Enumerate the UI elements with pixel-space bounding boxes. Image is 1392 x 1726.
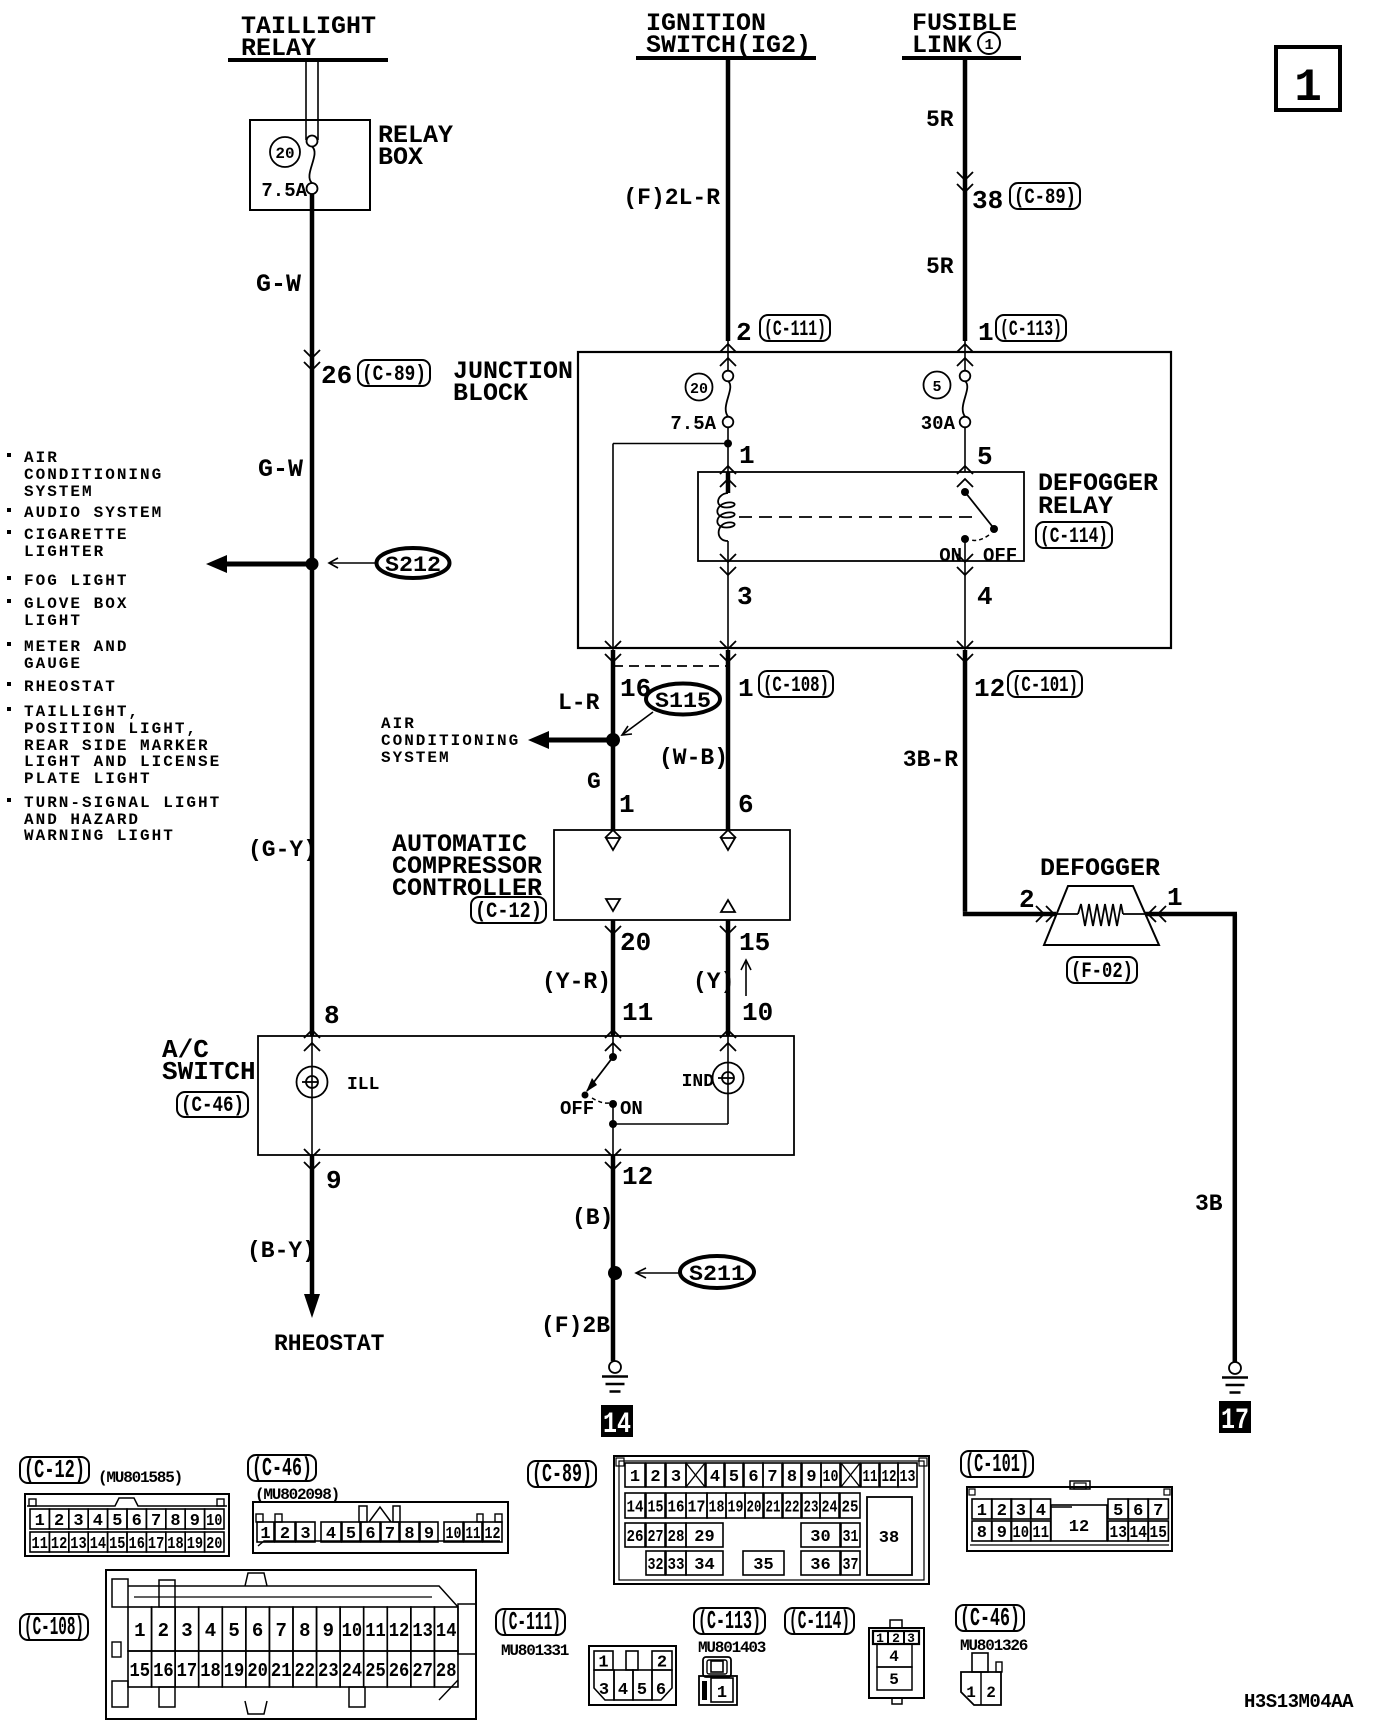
svg-text:13: 13 xyxy=(1110,1524,1127,1543)
connector C-46 pin layout xyxy=(253,1502,508,1553)
svg-text:(C-12): (C-12) xyxy=(475,899,542,924)
svg-text:4: 4 xyxy=(618,1681,628,1700)
svg-text:5: 5 xyxy=(112,1512,122,1531)
svg-text:(C-89): (C-89) xyxy=(362,362,426,387)
svg-text:30: 30 xyxy=(810,1528,830,1547)
bus bar ignition switch xyxy=(636,56,816,60)
connector capsule C-46 (switch) xyxy=(177,1092,248,1117)
svg-text:15: 15 xyxy=(739,928,770,958)
svg-text:3: 3 xyxy=(300,1525,310,1544)
ground symbol 14 xyxy=(609,1361,621,1373)
svg-text:27: 27 xyxy=(412,1660,433,1682)
svg-text:SYSTEM: SYSTEM xyxy=(381,749,451,767)
svg-text:11: 11 xyxy=(32,1535,48,1554)
bus bar taillight relay xyxy=(228,58,388,62)
svg-text:12: 12 xyxy=(882,1468,897,1487)
svg-text:(C-114): (C-114) xyxy=(789,1606,850,1636)
svg-text:8: 8 xyxy=(404,1525,414,1544)
svg-text:11: 11 xyxy=(863,1468,878,1487)
defogger relay exit arrows xyxy=(720,554,973,575)
svg-text:(C-101): (C-101) xyxy=(965,1449,1029,1479)
splice S211 node xyxy=(608,1266,622,1280)
svg-text:(F)2L-R: (F)2L-R xyxy=(623,185,720,211)
svg-text:(C-114): (C-114) xyxy=(1040,524,1108,549)
svg-text:METER AND: METER AND xyxy=(24,638,128,656)
svg-text:28: 28 xyxy=(668,1528,685,1547)
relay coil-contact dashed link xyxy=(739,516,978,518)
splice label S211 xyxy=(680,1256,754,1288)
svg-text:MU801403: MU801403 xyxy=(698,1639,766,1657)
connector capsule C-114 (detail) xyxy=(785,1608,854,1634)
power source label TAILLIGHT RELAY xyxy=(241,12,376,63)
svg-text:19: 19 xyxy=(187,1535,203,1554)
svg-text:3: 3 xyxy=(671,1468,681,1487)
svg-text:13: 13 xyxy=(900,1468,916,1487)
svg-text:(C-89): (C-89) xyxy=(1014,185,1076,210)
svg-text:(F)2B: (F)2B xyxy=(541,1313,610,1339)
svg-text:34: 34 xyxy=(694,1556,714,1575)
svg-text:5: 5 xyxy=(932,379,941,396)
label RELAY BOX xyxy=(378,121,453,172)
svg-text:RHEOSTAT: RHEOSTAT xyxy=(24,678,117,696)
svg-text:FOG LIGHT: FOG LIGHT xyxy=(24,572,128,590)
relay coil xyxy=(717,472,734,561)
svg-text:IND: IND xyxy=(682,1072,715,1092)
svg-text:15: 15 xyxy=(648,1499,664,1518)
svg-text:16: 16 xyxy=(153,1660,174,1682)
svg-text:3B-R: 3B-R xyxy=(903,747,958,773)
svg-text:20: 20 xyxy=(275,145,294,163)
arrow to air conditioning system from S115 xyxy=(528,731,613,749)
svg-text:ILL: ILL xyxy=(347,1075,379,1095)
svg-text:(W-B): (W-B) xyxy=(659,745,728,771)
svg-text:5: 5 xyxy=(977,442,993,472)
svg-text:32: 32 xyxy=(648,1556,664,1575)
connector C-12 pin layout xyxy=(25,1494,229,1556)
connector capsule C-89 (detail) xyxy=(528,1461,596,1487)
relay box xyxy=(250,120,370,210)
wire pin3: relay to junction block edge xyxy=(727,561,729,648)
svg-text:CONDITIONING: CONDITIONING xyxy=(24,466,163,484)
svg-text:CONDITIONING: CONDITIONING xyxy=(381,732,520,750)
svg-text:6: 6 xyxy=(1133,1502,1143,1521)
svg-text:(C-111): (C-111) xyxy=(500,1607,561,1637)
svg-text:10: 10 xyxy=(823,1468,839,1487)
svg-text:20: 20 xyxy=(690,381,708,398)
label ON / OFF (relay) xyxy=(939,545,1017,567)
svg-text:7.5A: 7.5A xyxy=(261,180,307,202)
svg-text:3: 3 xyxy=(1016,1502,1026,1521)
svg-text:22: 22 xyxy=(785,1499,800,1518)
svg-text:(B-Y): (B-Y) xyxy=(247,1238,316,1264)
wire L-R / G : pin16 to compressor controller pin 1 xyxy=(611,650,616,830)
svg-text:2: 2 xyxy=(986,1684,996,1702)
svg-text:4: 4 xyxy=(205,1620,216,1642)
junction block outline xyxy=(578,352,1171,648)
splice S115 node xyxy=(606,733,620,747)
svg-text:POSITION LIGHT,: POSITION LIGHT, xyxy=(24,720,198,738)
svg-text:LIGHT AND LICENSE: LIGHT AND LICENSE xyxy=(24,753,221,771)
arrow to other systems from S212 xyxy=(206,555,312,573)
svg-text:BLOCK: BLOCK xyxy=(453,379,528,408)
ground symbol 17 xyxy=(1229,1362,1241,1374)
svg-text:12: 12 xyxy=(622,1162,653,1192)
svg-text:WARNING LIGHT: WARNING LIGHT xyxy=(24,827,175,845)
svg-text:11: 11 xyxy=(1033,1524,1050,1543)
svg-text:SYSTEM: SYSTEM xyxy=(24,483,94,501)
connector capsule C-113 xyxy=(996,315,1066,341)
svg-text:RELAY: RELAY xyxy=(1038,492,1113,521)
svg-text:8: 8 xyxy=(324,1001,340,1031)
svg-text:18: 18 xyxy=(167,1535,183,1554)
svg-text:17: 17 xyxy=(148,1535,164,1554)
svg-text:G: G xyxy=(587,769,601,795)
connector capsule C-114 xyxy=(1036,522,1112,548)
svg-text:(MU801585): (MU801585) xyxy=(98,1469,182,1487)
svg-text:(C-46): (C-46) xyxy=(960,1603,1020,1633)
svg-text:10: 10 xyxy=(742,998,773,1028)
svg-text:15: 15 xyxy=(1150,1524,1167,1543)
connector capsule C-89 (wire 26) xyxy=(358,360,430,386)
automatic compressor controller box xyxy=(554,830,790,920)
svg-text:3: 3 xyxy=(181,1620,192,1642)
svg-text:(C-108): (C-108) xyxy=(24,1612,84,1642)
wire pin4: relay to junction block edge xyxy=(964,561,966,648)
ground id box 14 xyxy=(601,1405,633,1442)
svg-text:GLOVE BOX: GLOVE BOX xyxy=(24,595,128,613)
svg-text:4: 4 xyxy=(710,1468,720,1487)
svg-text:21: 21 xyxy=(271,1660,292,1682)
A/C switch entry arrows xyxy=(304,1030,736,1051)
svg-text:10: 10 xyxy=(206,1512,222,1531)
svg-text:BOX: BOX xyxy=(378,143,423,172)
splice label S115 xyxy=(646,684,720,715)
lamp ILL xyxy=(297,1036,328,1155)
svg-text:6: 6 xyxy=(738,790,754,820)
svg-text:6: 6 xyxy=(252,1620,263,1642)
svg-text:CIGARETTE: CIGARETTE xyxy=(24,526,128,544)
svg-text:1: 1 xyxy=(739,441,755,471)
defogger pin 2 arrows xyxy=(1036,906,1054,922)
svg-text:LIGHTER: LIGHTER xyxy=(24,543,105,561)
svg-text:1: 1 xyxy=(134,1620,145,1642)
connector C-108 pin layout xyxy=(106,1570,476,1719)
svg-text:G-W: G-W xyxy=(258,455,303,484)
svg-text:1: 1 xyxy=(619,790,635,820)
wire (B-Y): switch pin 9 to rheostat xyxy=(304,1155,320,1318)
svg-text:24: 24 xyxy=(822,1499,838,1518)
lamp IND xyxy=(613,1036,744,1124)
svg-text:14: 14 xyxy=(436,1620,457,1642)
svg-text:26: 26 xyxy=(627,1528,644,1547)
power source label IGNITION SWITCH(IG2) xyxy=(646,9,811,60)
label A/C SWITCH xyxy=(162,1035,256,1087)
svg-text:20: 20 xyxy=(206,1535,222,1554)
wire internal: junction to pin 16 branch xyxy=(613,439,728,648)
svg-text:14: 14 xyxy=(1130,1524,1147,1543)
svg-text:22: 22 xyxy=(294,1660,315,1682)
svg-text:12: 12 xyxy=(974,674,1005,704)
svg-text:25: 25 xyxy=(842,1499,859,1518)
svg-text:2: 2 xyxy=(1019,885,1035,915)
svg-text:16: 16 xyxy=(129,1535,145,1554)
svg-text:12: 12 xyxy=(485,1525,501,1544)
svg-text:8: 8 xyxy=(787,1468,797,1487)
splice S212 node xyxy=(306,558,319,571)
svg-text:TAILLIGHT,: TAILLIGHT, xyxy=(24,703,140,721)
svg-text:1: 1 xyxy=(978,318,994,348)
svg-text:S212: S212 xyxy=(385,553,441,578)
connector capsule C-101 xyxy=(1008,671,1082,697)
svg-text:(C-111): (C-111) xyxy=(764,317,826,342)
svg-text:2: 2 xyxy=(158,1620,169,1642)
svg-text:(C-46): (C-46) xyxy=(252,1453,312,1483)
svg-text:3: 3 xyxy=(599,1681,609,1700)
svg-text:2: 2 xyxy=(997,1502,1007,1521)
A/C switch exit arrows xyxy=(304,1149,621,1170)
svg-text:6: 6 xyxy=(656,1681,666,1700)
wire 5R: fusible link to junction block pin 1 xyxy=(963,60,968,371)
svg-text:27: 27 xyxy=(648,1528,664,1547)
svg-text:23: 23 xyxy=(318,1660,339,1682)
svg-text:5: 5 xyxy=(637,1681,647,1700)
wire (F)2L-R: ignition switch to junction block pin 2 xyxy=(726,60,731,371)
svg-text:19: 19 xyxy=(224,1660,245,1682)
svg-text:2: 2 xyxy=(54,1512,64,1531)
node junction pin 1 internal xyxy=(724,440,732,448)
page number box 1 xyxy=(1276,47,1340,114)
svg-text:(C-89): (C-89) xyxy=(532,1459,592,1489)
svg-text:1: 1 xyxy=(738,674,754,704)
wire (Y): controller pin 15 to A/C switch pin 10 xyxy=(726,920,731,1036)
svg-text:SWITCH(IG2): SWITCH(IG2) xyxy=(646,31,811,60)
svg-text:35: 35 xyxy=(753,1556,773,1575)
S212 pointer arrow xyxy=(329,558,375,568)
svg-text:1: 1 xyxy=(260,1525,270,1544)
svg-text:26: 26 xyxy=(321,361,352,391)
svg-text:5: 5 xyxy=(729,1468,739,1487)
wire double: taillight relay to relay box xyxy=(306,62,318,140)
svg-text:9: 9 xyxy=(806,1468,816,1487)
svg-text:(G-Y): (G-Y) xyxy=(248,837,317,863)
svg-text:10: 10 xyxy=(342,1620,363,1642)
connector C-89 pin layout xyxy=(614,1456,929,1584)
svg-text:AIR: AIR xyxy=(381,715,416,733)
svg-text:1: 1 xyxy=(1294,62,1322,114)
svg-text:1: 1 xyxy=(1167,883,1183,913)
svg-text:MU801331: MU801331 xyxy=(501,1642,569,1660)
svg-text:1: 1 xyxy=(35,1512,45,1531)
controller exit arrows xyxy=(605,926,736,934)
wire 3B-R: junction block pin 12 to defogger pin 2 xyxy=(963,650,1056,914)
svg-text:(F-02): (F-02) xyxy=(1071,959,1133,984)
svg-text:5R: 5R xyxy=(926,107,954,133)
svg-text:(B): (B) xyxy=(572,1205,613,1231)
splice label S212 xyxy=(377,548,450,578)
svg-text:AIR: AIR xyxy=(24,449,59,467)
connector capsule C-111 (detail) xyxy=(496,1609,565,1635)
svg-text:38: 38 xyxy=(879,1529,899,1548)
svg-text:S211: S211 xyxy=(689,1262,745,1287)
svg-text:29: 29 xyxy=(694,1528,714,1547)
svg-text:10: 10 xyxy=(446,1525,462,1544)
svg-text:5R: 5R xyxy=(926,254,954,280)
junction block entry arrows pin2/pin1 xyxy=(720,344,973,366)
svg-text:17: 17 xyxy=(688,1499,706,1518)
system list fed by taillight relay circuit xyxy=(7,449,221,845)
svg-text:11: 11 xyxy=(622,998,653,1028)
svg-text:11: 11 xyxy=(365,1620,386,1642)
svg-text:(C-108): (C-108) xyxy=(763,673,829,698)
svg-text:6: 6 xyxy=(365,1525,375,1544)
svg-text:7: 7 xyxy=(385,1525,395,1544)
svg-text:15: 15 xyxy=(130,1660,151,1682)
label DEFOGGER RELAY xyxy=(1038,469,1158,521)
svg-text:3B: 3B xyxy=(1195,1191,1223,1217)
svg-text:10: 10 xyxy=(1013,1524,1030,1543)
svg-text:5: 5 xyxy=(346,1525,356,1544)
connector capsule C-46 small (detail) xyxy=(956,1605,1024,1631)
controller pin triangles xyxy=(606,838,735,912)
connector crossing arrows C-89 on 5R wire xyxy=(957,172,973,192)
svg-text:28: 28 xyxy=(436,1660,457,1682)
svg-text:26: 26 xyxy=(389,1660,410,1682)
svg-text:33: 33 xyxy=(668,1556,685,1575)
svg-text:18: 18 xyxy=(200,1660,221,1682)
svg-text:(C-46): (C-46) xyxy=(181,1093,244,1118)
S211 pointer arrow xyxy=(636,1268,680,1278)
connector capsule C-108 (detail) xyxy=(20,1614,88,1640)
svg-text:9: 9 xyxy=(190,1512,200,1531)
controller entry arrows xyxy=(605,830,736,838)
bus bar fusible link xyxy=(902,56,1021,60)
svg-text:(C-113): (C-113) xyxy=(698,1606,761,1636)
svg-text:23: 23 xyxy=(804,1499,819,1518)
svg-text:14: 14 xyxy=(603,1408,631,1442)
svg-text:6: 6 xyxy=(132,1512,142,1531)
connector capsule C-12 xyxy=(471,897,546,923)
svg-text:7: 7 xyxy=(151,1512,161,1531)
svg-text:LIGHT: LIGHT xyxy=(24,612,82,630)
svg-text:7: 7 xyxy=(276,1620,287,1642)
svg-text:5: 5 xyxy=(228,1620,239,1642)
svg-text:3: 3 xyxy=(73,1512,83,1531)
S115 pointer arrow xyxy=(622,712,653,735)
svg-text:18: 18 xyxy=(709,1499,725,1518)
connector capsule C-46 (detail) xyxy=(248,1455,316,1481)
connector C-108 dashed boundary xyxy=(613,665,728,667)
label AUTOMATIC COMPRESSOR CONTROLLER xyxy=(392,830,542,903)
connector crossing arrows C-89 on G-W wire xyxy=(304,350,320,370)
svg-text:5: 5 xyxy=(1113,1502,1123,1521)
svg-text:7.5A: 7.5A xyxy=(670,413,716,435)
svg-text:15: 15 xyxy=(109,1535,125,1554)
svg-text:5: 5 xyxy=(889,1671,899,1689)
svg-text:LINK: LINK xyxy=(912,31,972,60)
svg-text:9: 9 xyxy=(323,1620,334,1642)
svg-text:4: 4 xyxy=(326,1525,336,1544)
signal direction arrow on (Y) wire xyxy=(741,960,751,996)
svg-text:1: 1 xyxy=(966,1684,976,1702)
svg-text:OFF: OFF xyxy=(560,1098,594,1120)
svg-text:(C-12): (C-12) xyxy=(24,1455,85,1485)
svg-text:2: 2 xyxy=(736,318,752,348)
connector capsule C-111 xyxy=(760,315,830,341)
svg-text:7: 7 xyxy=(1153,1502,1163,1521)
svg-text:L-R: L-R xyxy=(558,690,600,716)
A/C switch box xyxy=(258,1036,794,1155)
svg-text:G-W: G-W xyxy=(256,270,301,299)
wire 3B: defogger pin 1 to ground 17 xyxy=(1145,914,1237,1362)
svg-text:9: 9 xyxy=(326,1166,342,1196)
svg-text:25: 25 xyxy=(365,1660,386,1682)
svg-text:4: 4 xyxy=(93,1512,103,1531)
svg-text:MU801326: MU801326 xyxy=(960,1637,1028,1655)
junction block exit arrows xyxy=(605,641,973,662)
svg-text:20: 20 xyxy=(247,1660,268,1682)
svg-text:30A: 30A xyxy=(921,413,956,435)
svg-text:GAUGE: GAUGE xyxy=(24,655,82,673)
svg-text:4: 4 xyxy=(889,1648,899,1666)
svg-text:13: 13 xyxy=(412,1620,433,1642)
connector capsule F-02 xyxy=(1067,957,1137,983)
connector C-114 pin layout xyxy=(869,1620,924,1704)
power source label FUSIBLE LINK 1 xyxy=(912,9,1017,60)
connector C-46 small pin layout xyxy=(961,1653,1002,1705)
svg-text:H3S13M04AA: H3S13M04AA xyxy=(1244,1691,1354,1713)
svg-text:37: 37 xyxy=(843,1556,859,1575)
svg-text:12: 12 xyxy=(51,1535,67,1554)
svg-text:1: 1 xyxy=(984,37,993,54)
svg-text:20: 20 xyxy=(747,1499,762,1518)
svg-text:AUDIO SYSTEM: AUDIO SYSTEM xyxy=(24,504,163,522)
svg-text:7: 7 xyxy=(767,1468,777,1487)
svg-text:13: 13 xyxy=(70,1535,86,1554)
label AIR CONDITIONING SYSTEM (S115) xyxy=(381,715,520,767)
svg-text:2: 2 xyxy=(650,1468,660,1487)
connector capsule C-12 (detail) xyxy=(20,1457,89,1483)
svg-text:16: 16 xyxy=(668,1499,685,1518)
connector C-113 pin layout xyxy=(699,1657,737,1705)
connector capsule C-113 (detail) xyxy=(694,1608,765,1634)
wire (W-B): C-108 pin 1 to controller pin 6 xyxy=(726,650,731,830)
svg-text:(C-101): (C-101) xyxy=(1012,673,1078,698)
connector capsule C-101 (detail) xyxy=(961,1451,1033,1477)
svg-text:S115: S115 xyxy=(655,689,711,714)
svg-text:(Y): (Y) xyxy=(693,969,734,995)
connector C-111 pin layout xyxy=(589,1646,676,1705)
svg-text:ON: ON xyxy=(620,1098,643,1120)
defogger relay box xyxy=(698,472,1024,561)
svg-text:8: 8 xyxy=(170,1512,180,1531)
defogger relay entry arrows xyxy=(720,466,973,487)
connector capsule C-108 xyxy=(759,671,833,697)
svg-text:6: 6 xyxy=(748,1468,758,1487)
svg-text:RHEOSTAT: RHEOSTAT xyxy=(274,1331,385,1357)
defogger pin 1 arrows xyxy=(1148,906,1166,922)
svg-text:14: 14 xyxy=(90,1535,106,1554)
svg-text:PLATE LIGHT: PLATE LIGHT xyxy=(24,770,152,788)
svg-text:1: 1 xyxy=(977,1502,987,1521)
svg-text:17: 17 xyxy=(1221,1404,1249,1438)
svg-text:OFF: OFF xyxy=(983,545,1017,567)
svg-text:11: 11 xyxy=(466,1525,481,1544)
svg-text:(C-113): (C-113) xyxy=(1000,317,1062,342)
wire G-W: relay box to A/C switch pin 8 xyxy=(310,194,315,1036)
fuse 20 7.5A in junction block xyxy=(670,371,733,439)
svg-text:20: 20 xyxy=(620,928,651,958)
svg-text:12: 12 xyxy=(389,1620,410,1642)
